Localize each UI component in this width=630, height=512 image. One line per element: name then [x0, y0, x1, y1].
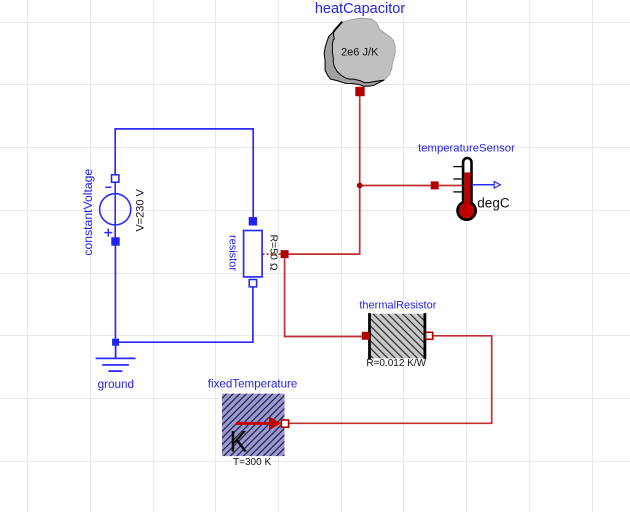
- circle body: [100, 194, 131, 225]
- svg-text:thermalResistor: thermalResistor: [359, 300, 436, 312]
- svg-text:R=0.012 K/W: R=0.012 K/W: [366, 358, 426, 369]
- minus sign: [105, 186, 111, 188]
- svg-text:V=230 V: V=230 V: [135, 188, 147, 231]
- pin constantVoltage.p (filled square): [111, 237, 119, 245]
- svg-text:ground: ground: [98, 378, 134, 391]
- node junction dot (red): [357, 183, 363, 189]
- pin resistor.p (filled square): [249, 217, 257, 225]
- value R=0.012 K/W: [366, 358, 426, 369]
- ground: [96, 342, 136, 371]
- value T=300 K: [233, 457, 271, 468]
- svg-text:resistor: resistor: [226, 235, 238, 271]
- main blob polygon: [324, 18, 395, 86]
- svg-text:T=300 K: T=300 K: [233, 457, 271, 468]
- pin heatCapacitor.port (filled red square): [355, 87, 364, 96]
- label thermalResistor: [359, 300, 436, 312]
- pin thermalResistor.port_b (open red square): [426, 332, 433, 339]
- wire resistor.heatPort to thermalResistor.port_a (red): [285, 258, 362, 336]
- tick marks: [453, 166, 462, 168]
- value 2e6 J/K: [341, 47, 379, 59]
- temperatureSensor T1: [453, 158, 510, 220]
- wire constantVoltage.p to ground node: [114, 246, 116, 343]
- svg-text:degC: degC: [477, 195, 510, 210]
- value V=230 V: [135, 188, 147, 231]
- pin resistor.heatPort (filled red square): [281, 250, 289, 258]
- pin temperatureSensor.port (filled red square): [431, 181, 439, 189]
- label heatCapacitor: [315, 1, 405, 17]
- label resistor: [226, 235, 238, 271]
- svg-text:K: K: [230, 425, 248, 458]
- arrow: [236, 422, 270, 425]
- label constantVoltage: [81, 169, 95, 256]
- label fixedTemperature: [208, 378, 298, 391]
- line through body: [114, 182, 116, 238]
- pin resistor.n (open square): [249, 280, 256, 287]
- red column: [464, 172, 470, 208]
- tube: [463, 158, 471, 206]
- shadow polygon: [333, 22, 342, 32]
- wire thermalResistor.port_b to fixedTemperature.port (red): [289, 336, 492, 424]
- pin thermalResistor.port_a (filled red square): [362, 332, 370, 340]
- label temperatureSensor: [418, 143, 515, 155]
- fixedTemperature T2: [222, 394, 285, 459]
- wire heatCapacitor.port to resistor.heatPort (red): [289, 96, 360, 255]
- svg-text:constantVoltage: constantVoltage: [81, 169, 95, 256]
- svg-text:R=50 Ω: R=50 Ω: [268, 235, 280, 271]
- thermalResistor R2: [370, 313, 425, 359]
- bulb: [458, 202, 476, 220]
- svg-text:2e6 J/K: 2e6 J/K: [341, 47, 379, 59]
- wire node to temperatureSensor (red): [360, 185, 462, 187]
- node junction at ground: [112, 339, 119, 346]
- wire constantVoltage.n to resistor.p (top blue wire): [115, 129, 253, 218]
- svg-text:fixedTemperature: fixedTemperature: [208, 378, 298, 391]
- heatCapacitor C1: [324, 18, 395, 86]
- pin constantVoltage.n (open square): [112, 175, 119, 182]
- value R=50 Ohm: [268, 235, 280, 271]
- resistor R1: [244, 231, 263, 277]
- svg-text:temperatureSensor: temperatureSensor: [418, 143, 515, 155]
- plus sign: [104, 232, 112, 234]
- wire resistor.n to ground node: [115, 287, 253, 342]
- label ground: [98, 378, 134, 391]
- resistor heatPort dotted pin line: [263, 253, 282, 255]
- svg-text:heatCapacitor: heatCapacitor: [315, 1, 405, 17]
- output arrow: [472, 184, 495, 186]
- constantVoltage U1: [100, 182, 131, 238]
- pin fixedTemperature.port (open red square): [281, 420, 288, 427]
